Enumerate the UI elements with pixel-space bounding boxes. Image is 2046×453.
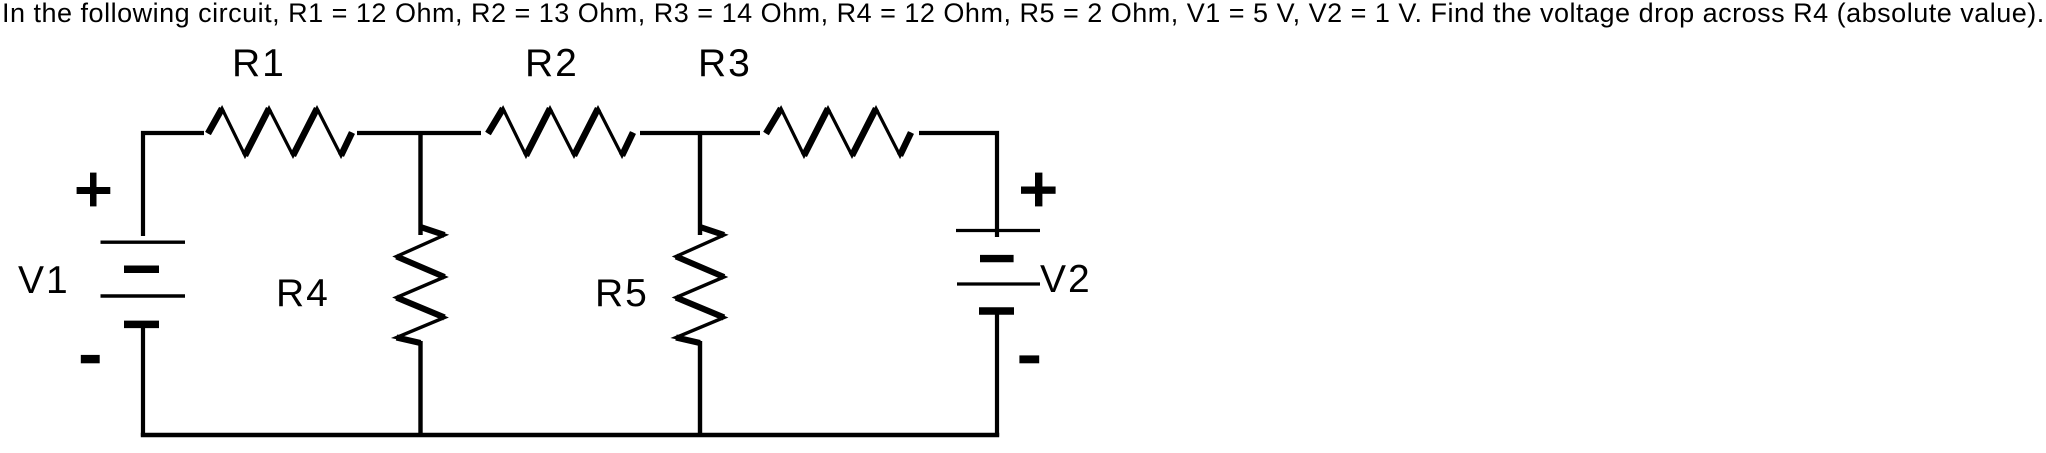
resistor R4 zigzag (397, 227, 445, 343)
minus sign V1 (81, 355, 100, 363)
svg-text:R4: R4 (276, 272, 330, 315)
plus sign V2 (1021, 173, 1056, 207)
wire node A from R1 to R2 across R4 junction (357, 131, 481, 135)
svg-text:R2: R2 (525, 42, 579, 85)
problem statement text (2, 0, 2045, 30)
wire R4 bottom to bottom rail (418, 341, 422, 436)
minus sign V2 (1019, 355, 1039, 363)
wire top-right corner from R3 down to V2 plus terminal (919, 133, 997, 237)
wire R4 junction drop from node A (418, 133, 422, 235)
resistor R1 zigzag (208, 109, 352, 156)
battery V1 (101, 242, 186, 324)
svg-text:V1: V1 (18, 259, 70, 302)
svg-text:R5: R5 (595, 272, 649, 315)
wire V2 negative terminal down to bottom rail (995, 311, 999, 436)
wire R5 bottom to bottom rail (698, 341, 702, 436)
wire top-left corner from V1 plus terminal up and right to R1 (143, 133, 204, 236)
wire R5 junction drop from node B (698, 133, 702, 235)
resistor R3 zigzag (766, 109, 911, 156)
bottom rail wire (141, 433, 999, 438)
resistor R5 zigzag (676, 227, 724, 343)
svg-text:R3: R3 (698, 42, 752, 85)
wire V1 negative terminal down to bottom rail (141, 327, 145, 436)
battery V2 (956, 231, 1040, 312)
plus sign V1 (77, 173, 111, 207)
svg-text:V2: V2 (1040, 258, 1092, 301)
wire node B from R2 to R3 across R5 junction (640, 131, 760, 135)
resistor R2 zigzag (488, 109, 633, 156)
svg-text:R1: R1 (232, 42, 286, 85)
